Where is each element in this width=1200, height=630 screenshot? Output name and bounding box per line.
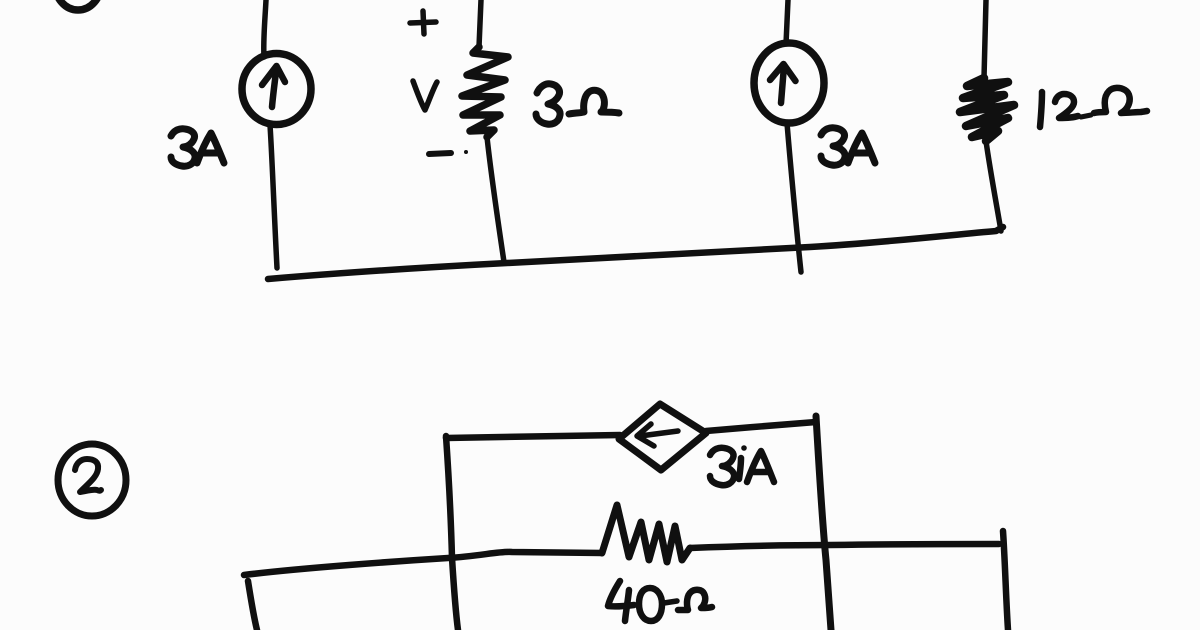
stray dot near minus [464,150,468,154]
label 12 ohm (R2) [1040,88,1147,127]
wire: top-left branch of circuit 2 [446,435,620,438]
wire: top feed of resistor R2 [984,0,986,78]
label 3iA (D1) [710,445,774,485]
resistor R2 [960,78,1014,141]
wire: middle rail of circuit 2 (right of R3) [690,544,999,548]
wire: diamond to top-right corner [706,422,816,431]
wire: bottom rail of circuit 1 [268,227,1003,279]
wire: right leg of circuit 2 [1003,531,1008,630]
label - (voltage polarity) [429,153,451,154]
label + (voltage polarity) [410,11,436,34]
wire: top feed of resistor R1 [479,0,481,47]
wire: left vertical branch of circuit 2 [446,436,458,630]
resistor R3 [602,505,690,562]
label V [413,81,437,110]
circled label 1 (partial, cut off at top) [55,0,101,10]
resistor R1 [462,47,508,137]
label 3 ohm (R1) [536,84,619,124]
wire: top feed of current source I1 [264,0,266,57]
label 3A (I2) [821,128,875,165]
wire: right vertical branch of circuit 2 [816,416,831,630]
wire: I1 to bottom rail [270,125,277,268]
wire: bottom-left leg of circuit 2 [248,581,257,630]
label 3A (I1) [171,129,224,166]
current source I1 [242,54,311,125]
wire: R2 to bottom rail [986,141,1001,231]
wire: middle rail of circuit 2 (left of R3) [244,552,602,575]
wire: R1 to bottom rail [487,137,504,262]
circled label 2 [58,444,126,516]
label 40 ohm (R3) [608,581,712,621]
wire: I2 to bottom rail [787,123,801,272]
current source I2 [754,43,824,123]
dependent current source D1 [619,404,706,470]
wire: top feed of current source I2 [786,0,788,44]
